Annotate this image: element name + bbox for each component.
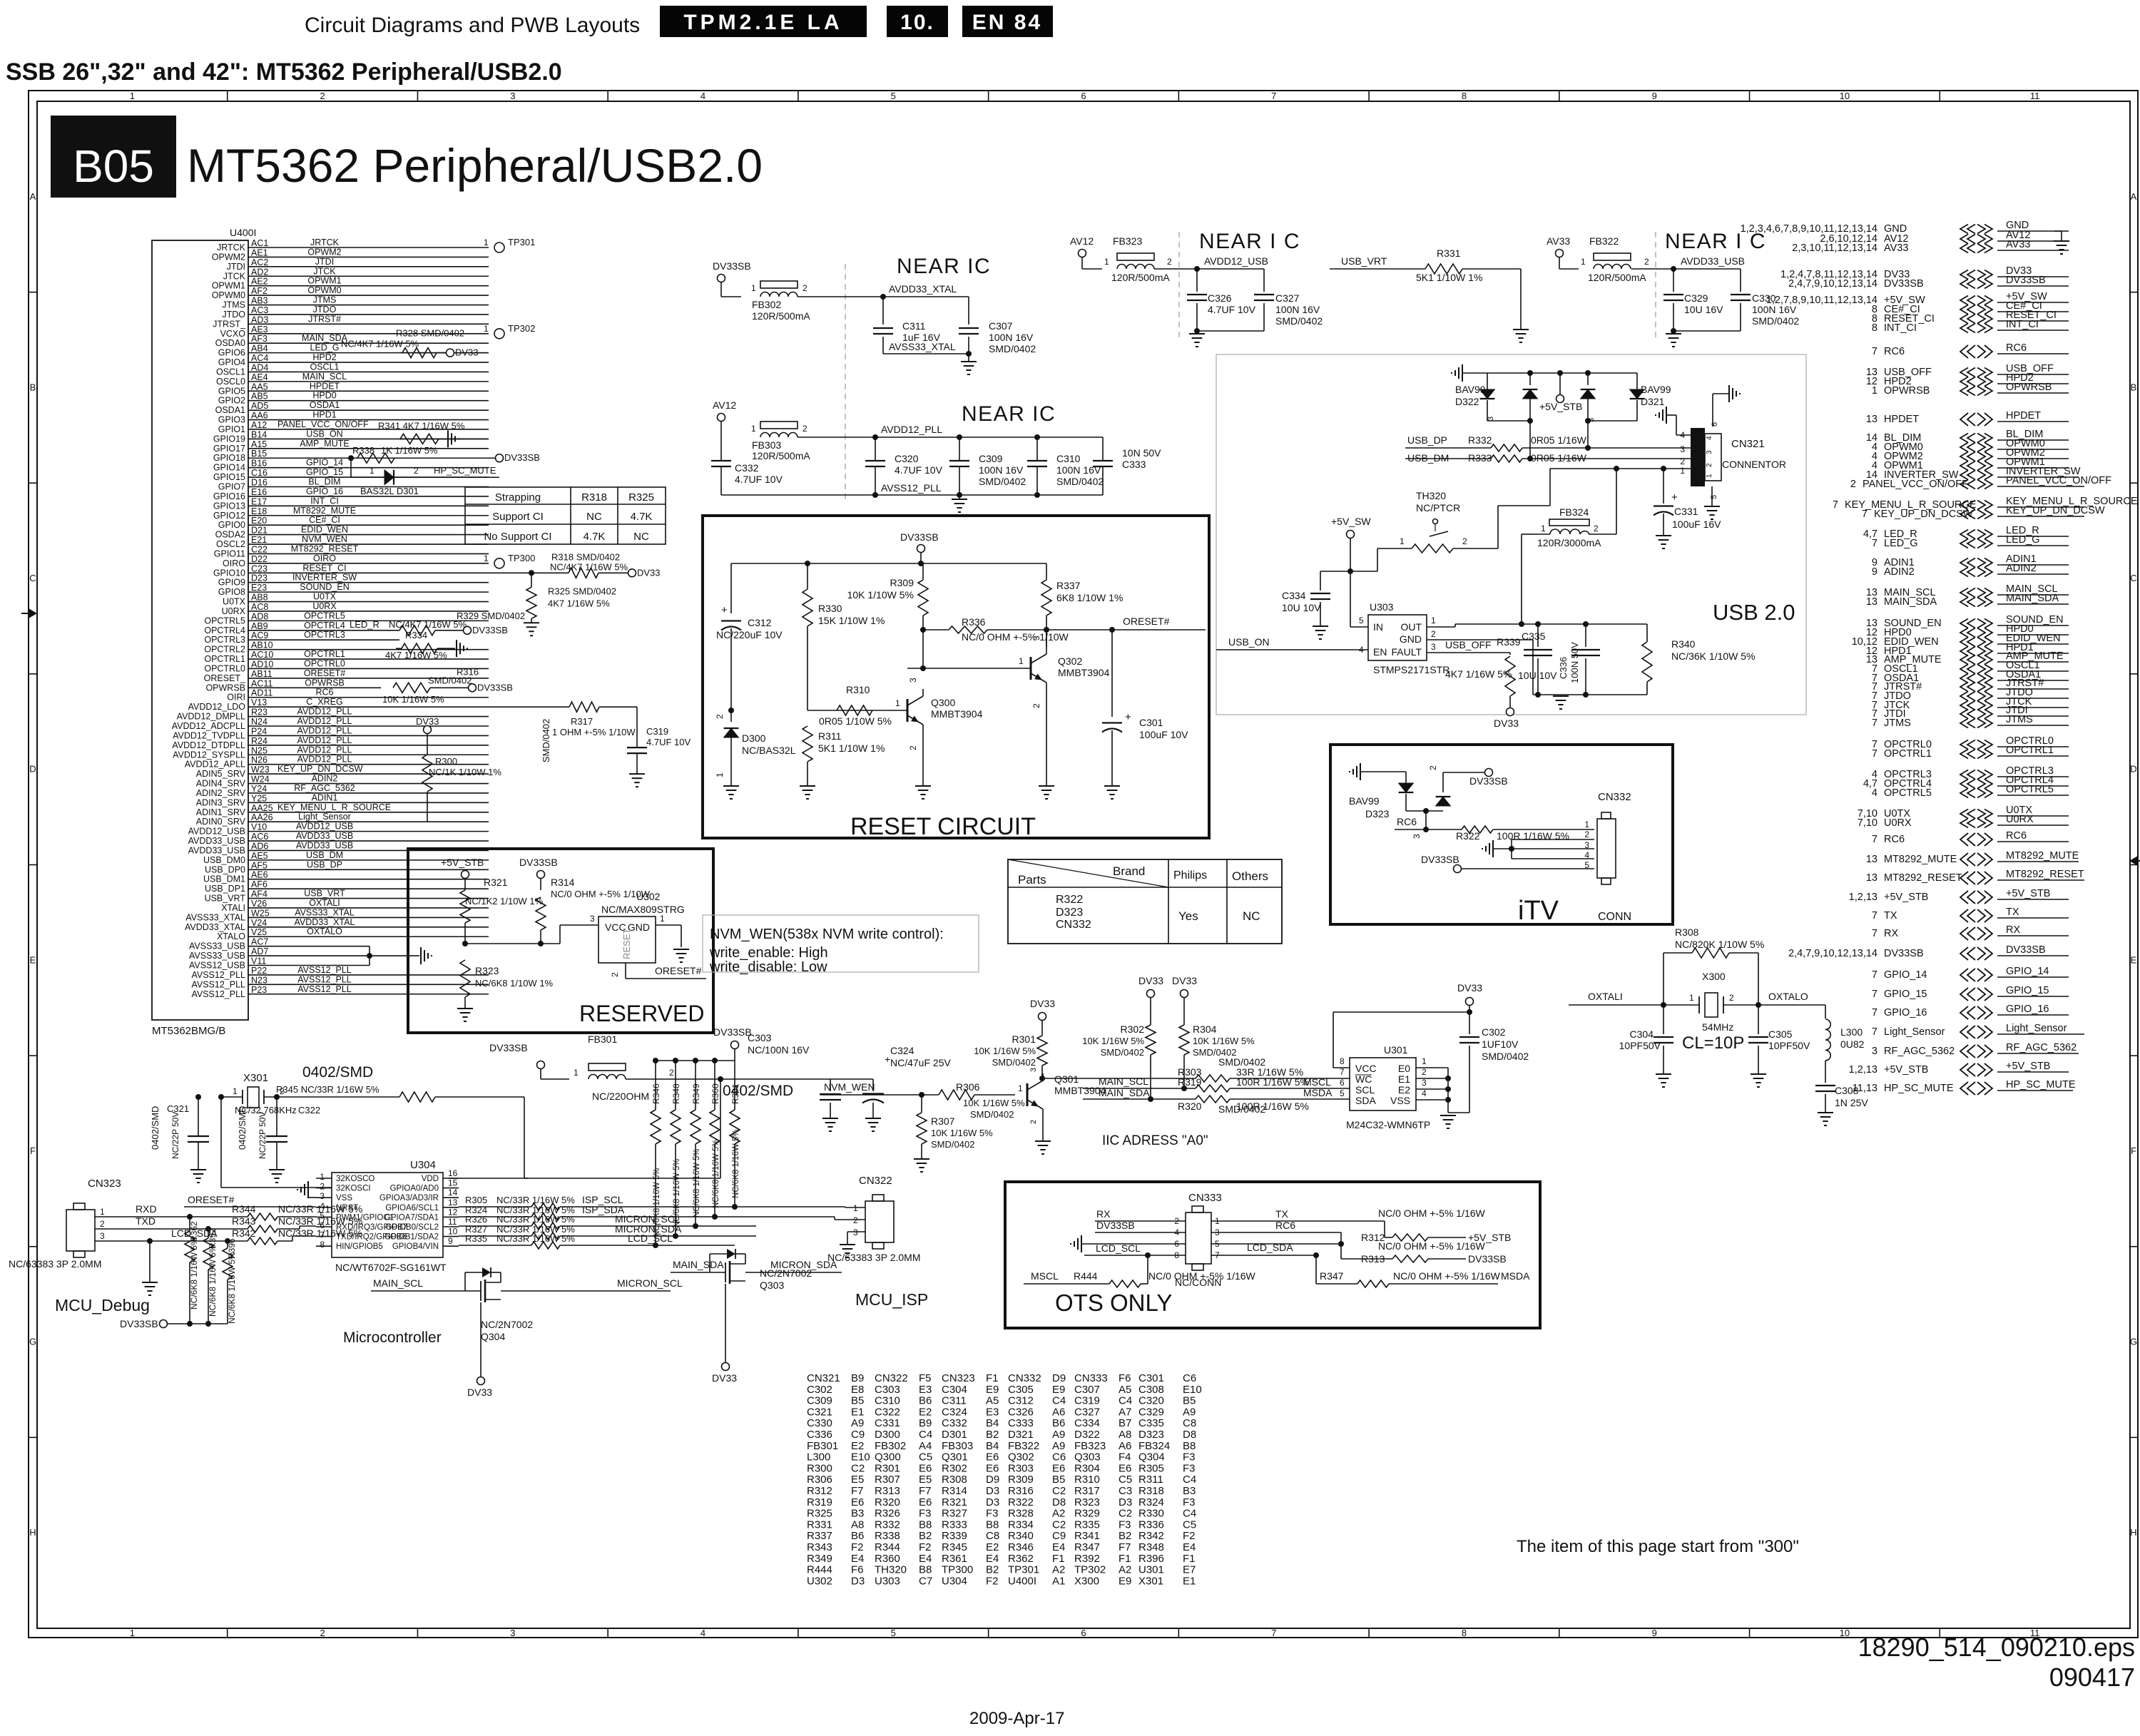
- svg-text:100R 1/16W 5%: 100R 1/16W 5%: [1236, 1101, 1309, 1112]
- wire pin5 CN333: [1211, 1243, 1341, 1245]
- svg-text:AVDD12_PLL: AVDD12_PLL: [297, 716, 352, 726]
- svg-text:TP301: TP301: [508, 237, 535, 247]
- svg-text:DV33SB: DV33SB: [713, 260, 751, 272]
- svg-text:USB_DM1: USB_DM1: [203, 874, 245, 884]
- svg-text:E6: E6: [851, 1496, 864, 1508]
- svg-text:R335: R335: [1074, 1518, 1100, 1531]
- svg-text:DV33: DV33: [1030, 998, 1055, 1009]
- svg-text:C322: C322: [298, 1105, 320, 1115]
- svg-text:DV33SB: DV33SB: [120, 1318, 158, 1329]
- svg-text:AB11: AB11: [251, 669, 272, 679]
- svg-text:NVM_WEN: NVM_WEN: [302, 534, 347, 544]
- svg-text:C331: C331: [1674, 506, 1698, 517]
- svg-text:2,4,7,9,10,12,13,14: 2,4,7,9,10,12,13,14: [1788, 278, 1877, 290]
- resistor R392: [208, 1229, 209, 1238]
- svg-text:PANEL_VCC_ON/OFF: PANEL_VCC_ON/OFF: [1863, 479, 1968, 490]
- svg-text:NEAR IC: NEAR IC: [897, 255, 991, 278]
- svg-text:RF_AGC_5362: RF_AGC_5362: [294, 783, 355, 793]
- svg-text:E10: E10: [1183, 1384, 1202, 1396]
- svg-text:+5V_STB: +5V_STB: [1884, 892, 1928, 903]
- svg-text:RXD: RXD: [136, 1203, 157, 1215]
- svg-text:R333: R333: [942, 1518, 967, 1531]
- connector CN321: [1691, 428, 1705, 486]
- ground for GND net: [2054, 230, 2062, 232]
- svg-text:B2: B2: [986, 1429, 999, 1441]
- svg-text:C6: C6: [1183, 1372, 1196, 1384]
- svg-text:U0RX: U0RX: [222, 606, 246, 616]
- wire AVDD33_USB: [1631, 268, 1741, 270]
- svg-text:R311: R311: [818, 730, 842, 742]
- svg-text:U0RX: U0RX: [1884, 817, 1912, 829]
- svg-text:100N 16V: 100N 16V: [989, 332, 1034, 343]
- svg-text:NC/220OHM: NC/220OHM: [592, 1091, 649, 1102]
- svg-text:OPCTRL1: OPCTRL1: [204, 654, 245, 664]
- svg-text:OXTALI: OXTALI: [309, 898, 340, 908]
- svg-text:C333: C333: [1122, 459, 1146, 470]
- svg-text:2: 2: [1729, 993, 1734, 1003]
- diode D301 BAS32L: [350, 458, 352, 477]
- svg-text:CL=10P: CL=10P: [1682, 1033, 1744, 1053]
- svg-text:TP302: TP302: [508, 323, 535, 334]
- svg-text:VDD: VDD: [422, 1175, 439, 1183]
- svg-text:X300: X300: [1074, 1575, 1099, 1587]
- svg-text:8: 8: [320, 1240, 325, 1250]
- svg-text:C334: C334: [1074, 1417, 1100, 1429]
- svg-text:AVDD12_LDO: AVDD12_LDO: [188, 702, 246, 712]
- svg-text:USB_DM: USB_DM: [1407, 452, 1449, 464]
- svg-text:OPCTRL1: OPCTRL1: [304, 649, 345, 659]
- svg-text:R341 4K7 1/16W 5%: R341 4K7 1/16W 5%: [378, 420, 465, 431]
- svg-text:The item of this page start fr: The item of this page start from "300": [1517, 1537, 1799, 1556]
- svg-text:SMD/0402: SMD/0402: [992, 1057, 1036, 1068]
- svg-text:IN: IN: [1373, 621, 1383, 633]
- svg-text:2: 2: [1706, 463, 1713, 467]
- svg-text:SMD/0402: SMD/0402: [1193, 1047, 1236, 1058]
- svg-text:RC6: RC6: [315, 688, 333, 698]
- svg-text:R300: R300: [807, 1462, 832, 1474]
- svg-text:A2: A2: [1052, 1508, 1065, 1520]
- svg-text:NC/0 OHM +-5% 1/10W: NC/0 OHM +-5% 1/10W: [551, 889, 651, 899]
- svg-text:R329: R329: [1074, 1508, 1100, 1520]
- svg-text:ADIN1_SRV: ADIN1_SRV: [196, 807, 246, 817]
- svg-text:Light_Sensor: Light_Sensor: [2006, 1023, 2067, 1034]
- svg-text:Parts: Parts: [1018, 873, 1046, 887]
- svg-text:A: A: [30, 191, 36, 202]
- svg-text:AE2: AE2: [251, 277, 268, 287]
- svg-text:JTMS: JTMS: [222, 300, 245, 310]
- svg-text:AF4: AF4: [251, 889, 267, 899]
- svg-text:D300: D300: [875, 1429, 900, 1441]
- svg-text:NEAR I C: NEAR I C: [1199, 230, 1300, 253]
- svg-text:U0TX: U0TX: [223, 597, 246, 607]
- svg-text:0R05 1/16W: 0R05 1/16W: [1531, 434, 1587, 446]
- capacitor C334: [1320, 571, 1321, 591]
- svg-text:2: 2: [1594, 524, 1599, 533]
- svg-text:6: 6: [1340, 1078, 1345, 1088]
- svg-text:C305: C305: [1768, 1028, 1793, 1040]
- CN321 pin6 to ground: [1712, 394, 1713, 427]
- svg-text:R360: R360: [710, 1083, 720, 1104]
- svg-text:GPIO15: GPIO15: [213, 472, 245, 482]
- reset circuit box: [703, 516, 1209, 838]
- svg-text:C8: C8: [986, 1530, 999, 1542]
- svg-text:1,2,13: 1,2,13: [1849, 892, 1877, 903]
- svg-text:FB323: FB323: [1074, 1440, 1106, 1452]
- svg-text:2: 2: [320, 1182, 325, 1192]
- ground Q300: [915, 785, 931, 787]
- svg-text:1: 1: [484, 238, 489, 247]
- svg-text:A9: A9: [1183, 1406, 1196, 1418]
- svg-text:RF_AGC_5362: RF_AGC_5362: [2006, 1042, 2077, 1053]
- svg-text:10PF50V: 10PF50V: [1619, 1040, 1661, 1051]
- svg-text:7: 7: [1872, 748, 1877, 760]
- ground at C319: [629, 773, 645, 775]
- svg-text:B2: B2: [986, 1564, 999, 1576]
- svg-text:NC/6K8 1/16W 5%: NC/6K8 1/16W 5%: [712, 1139, 720, 1208]
- svg-text:F6: F6: [1119, 1372, 1131, 1384]
- svg-text:TP300: TP300: [508, 553, 535, 563]
- svg-text:GPIOA7/SDA1: GPIOA7/SDA1: [384, 1213, 439, 1222]
- svg-text:AF3: AF3: [251, 334, 267, 344]
- svg-text:F1: F1: [986, 1372, 999, 1384]
- svg-text:4.7K: 4.7K: [631, 511, 653, 523]
- svg-text:AD3: AD3: [251, 315, 268, 325]
- svg-text:R321: R321: [484, 877, 508, 888]
- svg-text:V10: V10: [251, 822, 267, 832]
- svg-text:1: 1: [751, 424, 756, 434]
- svg-text:AD10: AD10: [251, 659, 273, 669]
- svg-text:10K 1/16W 5%: 10K 1/16W 5%: [382, 694, 444, 705]
- svg-text:R318: R318: [581, 491, 607, 504]
- svg-text:R308: R308: [942, 1474, 967, 1486]
- svg-text:OPCTRL4: OPCTRL4: [204, 626, 245, 635]
- svg-text:C22: C22: [251, 544, 267, 554]
- U303 fault wire USB_OFF: [1427, 652, 1510, 653]
- svg-text:CN332: CN332: [1598, 791, 1631, 803]
- svg-text:E4: E4: [851, 1553, 864, 1565]
- svg-text:RX: RX: [1884, 928, 1898, 939]
- svg-text:C312: C312: [748, 617, 772, 628]
- svg-text:9: 9: [1652, 91, 1657, 101]
- svg-text:AVDD12_DTDPLL: AVDD12_DTDPLL: [172, 740, 245, 750]
- svg-text:TPM2.1E LA: TPM2.1E LA: [683, 11, 842, 34]
- svg-text:DV33SB: DV33SB: [489, 1042, 528, 1053]
- svg-text:AVDD12_USB: AVDD12_USB: [296, 822, 353, 832]
- svg-text:USB_DM: USB_DM: [306, 850, 343, 860]
- CN323 pin3 ground: [149, 1241, 151, 1282]
- wire AVSS33_XTAL: [883, 353, 969, 354]
- ground C301: [1104, 785, 1120, 787]
- svg-text:D9: D9: [986, 1474, 999, 1486]
- svg-text:GPIO14: GPIO14: [213, 463, 245, 473]
- svg-text:1: 1: [100, 1207, 105, 1217]
- svg-text:HIN/GPIOB5: HIN/GPIOB5: [336, 1242, 383, 1251]
- svg-text:3: 3: [853, 1227, 858, 1237]
- CN322 pin3 ground: [847, 1231, 865, 1232]
- svg-text:R344: R344: [875, 1541, 900, 1553]
- capacitor C335: [1537, 624, 1539, 647]
- svg-text:R361: R361: [942, 1553, 967, 1565]
- svg-text:R335: R335: [465, 1233, 487, 1244]
- svg-text:E6: E6: [1119, 1462, 1131, 1474]
- svg-text:1: 1: [1431, 616, 1436, 626]
- svg-text:AVDD12_PLL: AVDD12_PLL: [297, 755, 352, 765]
- svg-text:F3: F3: [986, 1508, 999, 1520]
- svg-text:GPIO_16: GPIO_16: [2006, 1004, 2049, 1015]
- svg-text:100N 16V: 100N 16V: [1275, 304, 1320, 315]
- iTV box: [1330, 745, 1673, 924]
- svg-text:R326: R326: [875, 1508, 900, 1520]
- dashed separator near IC usb33: [1655, 232, 1656, 339]
- svg-text:E3: E3: [919, 1384, 932, 1396]
- svg-text:AE6: AE6: [251, 870, 268, 880]
- svg-text:16: 16: [448, 1168, 458, 1178]
- svg-text:+5V_STB: +5V_STB: [1539, 401, 1582, 412]
- svg-text:NC/22P 50V: NC/22P 50V: [258, 1112, 267, 1160]
- capacitor C327: [1254, 294, 1274, 295]
- svg-text:CN323: CN323: [942, 1372, 975, 1384]
- svg-text:A9: A9: [1052, 1440, 1065, 1452]
- svg-text:B: B: [2131, 382, 2137, 392]
- svg-text:E10: E10: [851, 1451, 870, 1464]
- svg-text:F7: F7: [1119, 1541, 1131, 1553]
- svg-text:JTMS: JTMS: [2006, 714, 2033, 725]
- svg-text:N23: N23: [251, 975, 267, 985]
- svg-text:C302: C302: [807, 1384, 832, 1396]
- svg-text:EN 84: EN 84: [972, 11, 1042, 34]
- svg-text:B: B: [30, 382, 36, 392]
- svg-text:10U 16V: 10U 16V: [1684, 304, 1723, 315]
- svg-text:3: 3: [1431, 642, 1436, 652]
- transistor Q300: [920, 665, 926, 671]
- svg-text:7: 7: [1872, 969, 1877, 981]
- svg-text:R336: R336: [962, 616, 986, 628]
- svg-text:32KOSCI: 32KOSCI: [336, 1185, 371, 1193]
- svg-text:B3: B3: [851, 1508, 864, 1520]
- svg-text:AVDD12_ADCPLL: AVDD12_ADCPLL: [172, 721, 245, 731]
- svg-text:7: 7: [1340, 1067, 1345, 1077]
- svg-text:C4: C4: [1119, 1395, 1132, 1407]
- svg-text:USB_VRT: USB_VRT: [205, 894, 246, 904]
- svg-text:OPCTRL0: OPCTRL0: [204, 663, 245, 673]
- svg-text:F2: F2: [919, 1541, 932, 1553]
- svg-text:R325: R325: [628, 491, 654, 504]
- svg-text:LED_G: LED_G: [2006, 534, 2040, 546]
- svg-text:AV12: AV12: [713, 399, 736, 411]
- svg-text:C2: C2: [1052, 1518, 1066, 1531]
- svg-text:3: 3: [320, 1191, 325, 1201]
- svg-text:A15: A15: [251, 439, 267, 449]
- svg-text:R323: R323: [1074, 1496, 1100, 1508]
- svg-text:MAIN_SDA: MAIN_SDA: [673, 1259, 724, 1270]
- svg-text:NC/6K8 1/10W 1%: NC/6K8 1/10W 1%: [475, 978, 554, 989]
- svg-text:AVDD33_USB: AVDD33_USB: [296, 831, 353, 841]
- svg-text:OPCTRL5: OPCTRL5: [1884, 787, 1932, 799]
- svg-text:FB302: FB302: [875, 1440, 906, 1452]
- svg-text:R302: R302: [1121, 1023, 1145, 1035]
- ground C322: [269, 1169, 285, 1170]
- svg-text:C301: C301: [1138, 1372, 1164, 1384]
- svg-text:D323: D323: [1365, 808, 1390, 820]
- svg-text:2: 2: [715, 714, 725, 719]
- svg-text:SMD/0402: SMD/0402: [970, 1109, 1014, 1120]
- svg-text:5: 5: [891, 91, 896, 101]
- svg-text:V25: V25: [251, 927, 267, 937]
- svg-text:Microcontroller: Microcontroller: [343, 1329, 442, 1346]
- svg-text:GPIO2: GPIO2: [218, 396, 245, 406]
- svg-text:GPIO5: GPIO5: [218, 386, 245, 396]
- svg-text:AVDD12_PLL: AVDD12_PLL: [297, 735, 352, 745]
- svg-text:EDID_WEN: EDID_WEN: [301, 525, 348, 535]
- svg-text:R301: R301: [875, 1462, 900, 1474]
- svg-text:15K 1/10W 1%: 15K 1/10W 1%: [818, 615, 885, 626]
- svg-text:RC6: RC6: [1884, 346, 1905, 357]
- revision arrow left frame: [29, 608, 37, 618]
- resistor R309: [918, 580, 928, 616]
- OTS only box: [1005, 1182, 1540, 1328]
- svg-text:4: 4: [1422, 1088, 1427, 1098]
- svg-text:R362: R362: [1008, 1553, 1034, 1565]
- svg-text:MSDA: MSDA: [1303, 1087, 1333, 1098]
- svg-text:1: 1: [1422, 1056, 1427, 1066]
- svg-text:DV33: DV33: [637, 567, 661, 578]
- ground at AVSS rows: [369, 946, 370, 966]
- svg-text:R305: R305: [465, 1195, 487, 1205]
- svg-text:R320: R320: [875, 1496, 900, 1508]
- svg-text:AVDD33_XTAL: AVDD33_XTAL: [295, 917, 355, 927]
- svg-text:13: 13: [1866, 596, 1877, 608]
- svg-text:4: 4: [700, 1628, 705, 1638]
- svg-text:DV33SB: DV33SB: [2006, 275, 2046, 286]
- svg-text:NC/BAS32L: NC/BAS32L: [742, 745, 796, 756]
- svg-text:C310: C310: [1056, 453, 1081, 464]
- svg-text:B5: B5: [1183, 1395, 1196, 1407]
- svg-text:R340: R340: [1671, 638, 1696, 650]
- svg-text:R331: R331: [807, 1518, 832, 1531]
- svg-text:C4: C4: [1183, 1474, 1196, 1486]
- svg-text:FB303: FB303: [752, 439, 781, 451]
- svg-text:7: 7: [1872, 989, 1877, 1000]
- svg-text:HPDET: HPDET: [1884, 414, 1919, 425]
- svg-text:2: 2: [1167, 257, 1172, 267]
- svg-text:NC/6K8 1/16W 5%: NC/6K8 1/16W 5%: [732, 1129, 740, 1198]
- svg-text:AVSS12_PLL: AVSS12_PLL: [297, 984, 352, 994]
- svg-text:MMBT3904: MMBT3904: [1058, 667, 1110, 678]
- svg-text:6: 6: [1081, 1628, 1086, 1638]
- svg-text:AMP_MUTE: AMP_MUTE: [300, 439, 349, 449]
- svg-text:C4: C4: [1183, 1508, 1196, 1520]
- svg-text:B6: B6: [1052, 1417, 1065, 1429]
- resistor R444 MSCL: [1147, 1255, 1148, 1284]
- svg-text:2: 2: [1644, 257, 1649, 267]
- svg-text:7: 7: [1872, 928, 1877, 939]
- svg-text:1: 1: [1872, 385, 1877, 397]
- svg-text:SMD/0402: SMD/0402: [979, 476, 1026, 487]
- svg-text:1N 25V: 1N 25V: [1835, 1097, 1868, 1108]
- svg-text:+5V_STB: +5V_STB: [441, 857, 484, 868]
- svg-text:LED_R: LED_R: [350, 619, 379, 630]
- svg-text:INT_CI: INT_CI: [310, 496, 339, 506]
- svg-text:R306: R306: [956, 1081, 980, 1093]
- svg-text:R340: R340: [1008, 1530, 1034, 1542]
- svg-text:AV33: AV33: [2006, 239, 2030, 250]
- svg-text:7: 7: [1872, 718, 1877, 729]
- svg-text:AE1: AE1: [251, 247, 268, 257]
- svg-text:C336: C336: [807, 1429, 832, 1441]
- svg-text:3: 3: [1031, 635, 1041, 640]
- svg-text:AVSS12_PLL: AVSS12_PLL: [297, 974, 352, 984]
- svg-text:PANEL_VCC_ON/OFF: PANEL_VCC_ON/OFF: [2006, 475, 2111, 486]
- svg-text:R316: R316: [1008, 1485, 1034, 1497]
- svg-text:RF_AGC_5362: RF_AGC_5362: [1884, 1046, 1955, 1057]
- svg-text:OXTALO: OXTALO: [1768, 991, 1808, 1002]
- svg-text:F: F: [2131, 1145, 2136, 1156]
- gnd rail C329 C330: [1673, 330, 1741, 332]
- svg-text:RX: RX: [2006, 924, 2020, 936]
- svg-text:USB_ON: USB_ON: [1228, 636, 1270, 648]
- svg-text:OPCTRL3: OPCTRL3: [204, 635, 245, 645]
- svg-text:OPCTRL0: OPCTRL0: [304, 658, 345, 668]
- svg-text:R343: R343: [807, 1541, 832, 1553]
- svg-text:1: 1: [1104, 257, 1109, 267]
- svg-text:FB322: FB322: [1008, 1440, 1039, 1452]
- svg-text:U302: U302: [636, 891, 661, 902]
- svg-text:B5: B5: [851, 1395, 864, 1407]
- svg-text:10U 10V: 10U 10V: [1282, 602, 1321, 613]
- svg-text:DV33: DV33: [1172, 975, 1197, 986]
- ground D300: [723, 785, 739, 787]
- svg-text:AC2: AC2: [251, 257, 268, 267]
- svg-text:write_enable: High: write_enable: High: [709, 945, 828, 961]
- svg-text:R327: R327: [942, 1508, 967, 1520]
- svg-text:NVM_WEN(538x NVM write control: NVM_WEN(538x NVM write control):: [710, 926, 944, 942]
- svg-text:RC6: RC6: [1275, 1220, 1295, 1231]
- svg-text:NC: NC: [586, 511, 602, 523]
- ground U302: [673, 949, 689, 950]
- svg-text:R347: R347: [1320, 1270, 1344, 1282]
- svg-text:MAIN_SCL: MAIN_SCL: [373, 1277, 423, 1289]
- svg-text:FB303: FB303: [942, 1440, 973, 1452]
- svg-text:AD7: AD7: [251, 946, 268, 956]
- svg-text:4.7UF 10V: 4.7UF 10V: [895, 464, 943, 476]
- svg-text:PANEL_VCC_ON/OFF: PANEL_VCC_ON/OFF: [277, 419, 369, 429]
- svg-text:D323: D323: [1056, 907, 1083, 919]
- svg-text:FB324: FB324: [1138, 1440, 1170, 1452]
- svg-text:R322: R322: [1008, 1496, 1034, 1508]
- svg-text:F1: F1: [1183, 1553, 1196, 1565]
- svg-text:E: E: [2131, 954, 2137, 965]
- svg-text:AA6: AA6: [251, 411, 268, 421]
- svg-text:BAV99: BAV99: [1641, 384, 1671, 395]
- svg-text:GPIO_14: GPIO_14: [2006, 966, 2049, 977]
- svg-text:GPIO_14: GPIO_14: [1884, 969, 1927, 981]
- U303 out rail: [1427, 626, 1455, 628]
- svg-text:A9: A9: [1052, 1429, 1065, 1441]
- svg-text:AD8: AD8: [251, 611, 268, 621]
- svg-text:GPIO17: GPIO17: [213, 444, 245, 454]
- transistor Q301: [1026, 1083, 1029, 1106]
- power DV33SB iTV top: [1485, 769, 1493, 777]
- svg-text:XTALI: XTALI: [221, 903, 245, 913]
- svg-text:Light_Sensor: Light_Sensor: [298, 812, 351, 822]
- svg-text:HPD0: HPD0: [312, 391, 336, 401]
- svg-text:HP_SC_MUTE: HP_SC_MUTE: [434, 465, 496, 476]
- svg-text:2: 2: [320, 1628, 325, 1638]
- svg-text:GPIO_14: GPIO_14: [306, 458, 343, 468]
- svg-text:SMD/0402: SMD/0402: [989, 343, 1036, 354]
- resistor R304: [1179, 1025, 1189, 1055]
- svg-text:USB_DP: USB_DP: [1407, 434, 1447, 446]
